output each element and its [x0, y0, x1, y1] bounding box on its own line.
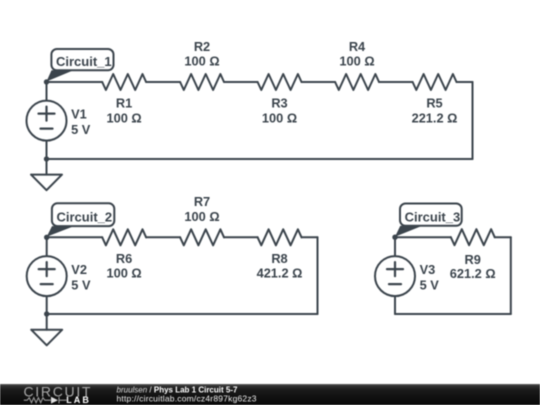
svg-text:R6: R6 [116, 251, 132, 266]
svg-text:5 V: 5 V [420, 277, 440, 292]
svg-text:R5: R5 [426, 96, 442, 111]
wire: V2 bottom to bottom node 2 [46, 296, 48, 314]
svg-text:V1: V1 [71, 106, 87, 121]
wire: R4 to R5 [379, 81, 413, 83]
wire: R6 to R7 [146, 236, 180, 238]
svg-text:R8: R8 [271, 251, 287, 266]
svg-text:5 V: 5 V [71, 122, 91, 137]
wire: circuit2 top left segment [47, 236, 102, 238]
name tag Circuit_3 [400, 204, 462, 226]
wire: bottom node 2 to ground 2 [46, 314, 48, 330]
resistor R5 [413, 74, 457, 90]
V3 plus sign [387, 268, 403, 270]
junction node circuit1 bottom [44, 156, 49, 161]
tag pointer wedge 2 [47, 226, 74, 237]
tag pointer wedge 3 [395, 226, 422, 237]
svg-text:R1: R1 [116, 96, 132, 111]
ground 2 [31, 330, 62, 346]
wire: node to V1 top [46, 82, 48, 101]
voltage source V3 [375, 256, 415, 296]
name tag Circuit_2 [52, 203, 114, 226]
wire: circuit2 bottom [47, 313, 318, 315]
footer bar [0, 384, 540, 405]
wire: R8 to top-right corner c2 [302, 236, 318, 238]
wire: circuit1 bottom [47, 158, 473, 160]
V1 minus sign [41, 128, 53, 130]
svg-text:R2: R2 [194, 39, 210, 54]
svg-text:LAB: LAB [66, 395, 91, 405]
wire: circuit1 right side [472, 82, 474, 159]
svg-text:221.2 Ω: 221.2 Ω [412, 110, 458, 125]
wire: R5 to top-right corner [457, 81, 473, 83]
resistor R7 [180, 229, 224, 245]
wire: circuit3 bottom [395, 313, 511, 315]
junction node circuit1 top [44, 79, 49, 84]
svg-text:621.2 Ω: 621.2 Ω [450, 266, 496, 281]
CircuitLab logo wire with resistor and diode [24, 397, 67, 403]
svg-text:R7: R7 [194, 194, 210, 209]
wire: circuit3 top left segment [395, 236, 451, 238]
svg-text:5 V: 5 V [71, 277, 91, 292]
wire: circuit3 right side [510, 237, 512, 314]
resistor R1 [102, 74, 146, 90]
wire: R9 to top-right corner c3 [495, 236, 511, 238]
V2 plus sign [39, 268, 55, 270]
wire: R7 to R8 [224, 236, 258, 238]
wire: R3 to R4 [302, 81, 336, 83]
voltage source V2 [27, 256, 67, 296]
svg-text:Circuit_1: Circuit_1 [56, 54, 112, 69]
ground 1 [31, 175, 62, 191]
resistor R4 [335, 74, 379, 90]
resistor R2 [180, 74, 224, 90]
svg-text:100 Ω: 100 Ω [339, 54, 374, 69]
V2 minus sign [41, 283, 53, 285]
wire: circuit3 bottom left up to V3 [394, 296, 396, 314]
name tag Circuit_1 [51, 49, 113, 70]
resistor R8 [258, 229, 302, 245]
svg-text:R3: R3 [271, 96, 287, 111]
wire: node2 to V2 top [46, 237, 48, 256]
resistor R3 [258, 74, 302, 90]
svg-text:Circuit_3: Circuit_3 [405, 209, 461, 224]
svg-text:V3: V3 [420, 262, 436, 277]
resistor R6 [102, 229, 146, 245]
svg-text:100 Ω: 100 Ω [107, 110, 142, 125]
wire: R2 to R3 [224, 81, 258, 83]
svg-text:R4: R4 [349, 39, 366, 54]
svg-text:R9: R9 [465, 252, 481, 267]
logo diode triangle [51, 397, 58, 404]
svg-text:http://circuitlab.com/cz4r897k: http://circuitlab.com/cz4r897kg62z3 [117, 394, 257, 404]
svg-text:100 Ω: 100 Ω [184, 54, 219, 69]
wire: circuit1 top left segment [47, 81, 103, 83]
voltage source V1 [27, 101, 67, 141]
svg-text:100 Ω: 100 Ω [107, 266, 142, 281]
junction node circuit3 top [392, 235, 397, 240]
svg-text:Circuit_2: Circuit_2 [57, 210, 113, 225]
wire: circuit2 right side [317, 237, 319, 314]
svg-text:100 Ω: 100 Ω [262, 110, 297, 125]
svg-text:V2: V2 [71, 262, 87, 277]
wire: V1 bottom to bottom node [46, 141, 48, 159]
V3 minus sign [389, 283, 401, 285]
wire: node3 to V3 top [394, 237, 396, 256]
junction node circuit2 bottom [44, 311, 49, 316]
svg-text:100 Ω: 100 Ω [184, 209, 219, 224]
tag pointer wedge 1 [47, 70, 74, 81]
V1 plus sign [39, 112, 55, 114]
wire: R1 to R2 [146, 81, 180, 83]
svg-text:421.2 Ω: 421.2 Ω [257, 266, 303, 281]
junction node circuit2 top [44, 235, 49, 240]
wire: bottom node to ground 1 [46, 159, 48, 175]
resistor R9 [451, 229, 495, 245]
